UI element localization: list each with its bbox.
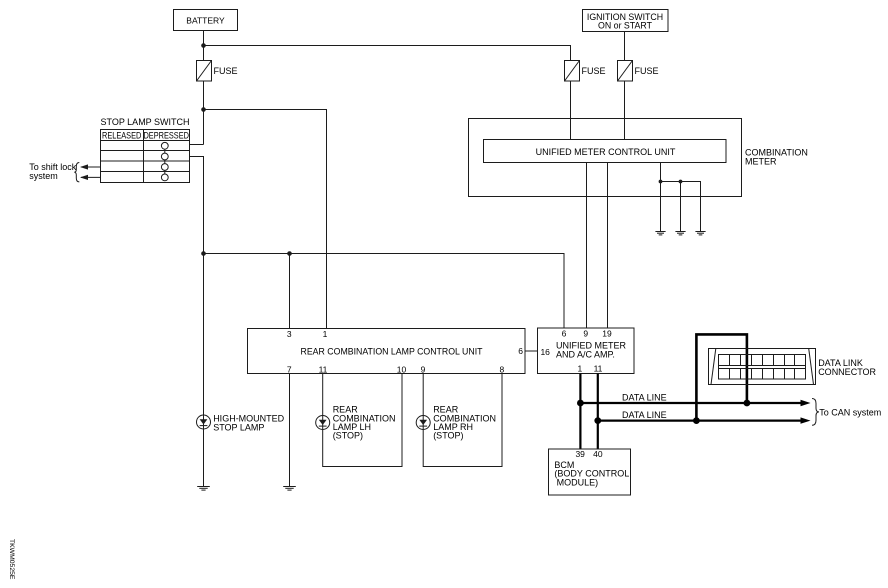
wire pin1 U3 to BCM pin39 bbox=[579, 374, 581, 450]
wire battery horizontal feed to ignition fuse bbox=[204, 46, 571, 61]
lamp LH circuit loop pins 11-10 bbox=[323, 374, 402, 467]
lamp RH circuit loop pins 9-8 bbox=[423, 374, 502, 467]
svg-text:CONNECTOR: CONNECTOR bbox=[818, 367, 876, 377]
BCM box bbox=[549, 449, 631, 495]
svg-text:10: 10 bbox=[397, 364, 407, 374]
svg-text:DEPRESSED: DEPRESSED bbox=[143, 131, 189, 141]
wire arrow to shift lock row 4 bbox=[81, 176, 101, 178]
svg-text:FUSE: FUSE bbox=[214, 66, 238, 76]
ground G3 bbox=[695, 232, 705, 235]
stop lamp switch contact chain bbox=[164, 146, 166, 178]
svg-text:UNIFIED METER CONTROL UNIT: UNIFIED METER CONTROL UNIT bbox=[536, 147, 676, 157]
svg-text:MODULE): MODULE) bbox=[557, 477, 599, 487]
wire stop lamp switch row 2 output bbox=[190, 157, 204, 254]
svg-text:DATA LINE: DATA LINE bbox=[622, 393, 667, 403]
node battery feed split bbox=[201, 43, 206, 48]
svg-text:9: 9 bbox=[583, 329, 588, 339]
wire fuse F3 to unified meter control unit bbox=[624, 81, 626, 140]
svg-text:To CAN system: To CAN system bbox=[819, 408, 881, 418]
ignition switch box bbox=[583, 10, 669, 32]
svg-text:BATTERY: BATTERY bbox=[186, 16, 225, 26]
svg-text:ON or START: ON or START bbox=[598, 20, 653, 30]
svg-text:STOP LAMP SWITCH: STOP LAMP SWITCH bbox=[101, 117, 190, 127]
lamp symbol high-mounted stop lamp DS1 bbox=[197, 415, 211, 429]
CAN thick wires bbox=[580, 334, 802, 449]
node data line 1 connector bbox=[744, 400, 751, 407]
svg-text:FUSE: FUSE bbox=[582, 66, 606, 76]
svg-text:19: 19 bbox=[602, 329, 612, 339]
svg-text:1: 1 bbox=[323, 329, 328, 339]
wire branch to pin 1 of rear combination lamp control unit bbox=[204, 110, 327, 329]
main stop lamp feed vertical bbox=[203, 254, 205, 487]
ground G1 bbox=[655, 232, 665, 235]
svg-text:7: 7 bbox=[287, 364, 292, 374]
ground G4 (high mounted stop lamp) bbox=[197, 487, 210, 491]
fuse F3 (ignition right) bbox=[618, 61, 633, 82]
unified meter and a/c amp box U3 bbox=[538, 328, 635, 374]
wire control unit to pin 19 bbox=[607, 163, 609, 329]
ground G2 bbox=[675, 232, 685, 235]
svg-text:6: 6 bbox=[562, 329, 567, 339]
svg-text:(STOP): (STOP) bbox=[333, 431, 363, 441]
svg-text:8: 8 bbox=[500, 364, 505, 374]
brace to CAN system bbox=[812, 399, 819, 426]
wire control unit to ground bus bbox=[660, 163, 662, 182]
ground drop 1 bbox=[660, 182, 662, 232]
fuse F2 (ignition left) bbox=[565, 61, 580, 82]
svg-text:FUSE: FUSE bbox=[635, 66, 659, 76]
ground drop 2 bbox=[680, 182, 682, 232]
wire control unit to pin 9 bbox=[586, 163, 588, 329]
svg-text:1: 1 bbox=[578, 363, 583, 373]
wire ignition to fuse F3 bbox=[624, 32, 626, 61]
ground bus in combination meter bbox=[661, 182, 701, 232]
svg-text:TKWM0525E: TKWM0525E bbox=[8, 539, 15, 580]
ground G5 (pin 7) bbox=[283, 487, 296, 491]
lamp symbol rear combination LH DS2 bbox=[316, 416, 330, 430]
battery box B1 bbox=[174, 10, 238, 31]
node ground bus 1 bbox=[659, 180, 663, 184]
svg-text:40: 40 bbox=[593, 449, 603, 459]
wire into stop lamp switch row 1 bbox=[190, 144, 204, 146]
svg-text:METER: METER bbox=[745, 157, 777, 167]
unified meter control unit box U1 bbox=[484, 140, 727, 163]
wire data line 2 bbox=[598, 420, 802, 422]
node data line 2 connector branch bbox=[693, 417, 700, 424]
svg-text:11: 11 bbox=[319, 364, 328, 374]
wire branch down to pin 3 bbox=[289, 254, 291, 329]
svg-text:6: 6 bbox=[518, 346, 523, 356]
arrowhead shift lock 4 bbox=[80, 175, 88, 180]
wire bus at y=253 to pin 6 of unified meter amp bbox=[204, 254, 565, 329]
data link connector J1 bbox=[709, 349, 816, 385]
arrowhead to CAN 2 bbox=[801, 417, 811, 423]
svg-text:11: 11 bbox=[594, 363, 603, 373]
svg-text:REAR COMBINATION LAMP CONTROL: REAR COMBINATION LAMP CONTROL UNIT bbox=[301, 347, 483, 357]
wire data line 1 bbox=[580, 402, 802, 404]
node ground bus 2 bbox=[679, 180, 683, 184]
brace shift lock bbox=[74, 163, 79, 182]
svg-text:39: 39 bbox=[575, 449, 585, 459]
wire pin 7 to ground bbox=[289, 374, 291, 487]
arrowhead to CAN 1 bbox=[801, 400, 811, 406]
svg-text:9: 9 bbox=[421, 364, 426, 374]
svg-text:system: system bbox=[29, 171, 58, 181]
lamp symbol rear combination RH DS3 bbox=[416, 416, 430, 430]
node stop lamp bus left bbox=[201, 251, 206, 256]
combination meter outer box bbox=[469, 119, 742, 197]
svg-text:(STOP): (STOP) bbox=[433, 431, 463, 441]
wire pin6 U2 to pin16 U3 bbox=[525, 350, 538, 352]
arrowhead shift lock 3 bbox=[80, 164, 88, 169]
node pin3 branch bbox=[287, 251, 292, 256]
svg-text:AND A/C AMP.: AND A/C AMP. bbox=[556, 350, 615, 360]
svg-text:RELEASED: RELEASED bbox=[102, 131, 141, 141]
fuse F1 (battery) bbox=[197, 61, 212, 82]
wire battery down to fuse bbox=[203, 31, 205, 61]
wire fuse F2 to unified meter control unit bbox=[570, 81, 572, 140]
rear combination lamp control unit box U2 bbox=[248, 329, 526, 374]
node pin1 branch bbox=[201, 107, 206, 112]
svg-text:STOP LAMP: STOP LAMP bbox=[213, 422, 264, 432]
wire pin11 U3 to BCM pin40 bbox=[597, 374, 599, 450]
svg-text:3: 3 bbox=[287, 329, 292, 339]
svg-text:DATA LINE: DATA LINE bbox=[622, 410, 667, 420]
svg-text:16: 16 bbox=[540, 347, 550, 357]
stop lamp switch table bbox=[101, 130, 190, 183]
node data line 1 pin1 bbox=[577, 400, 584, 407]
wire data link connector branch bbox=[696, 334, 747, 420]
wire arrow to shift lock row 3 bbox=[81, 166, 101, 168]
junction dots thin wires bbox=[80, 43, 682, 256]
wire fuse F1 down to stop lamp switch bbox=[203, 81, 205, 145]
node data line 2 pin11 bbox=[594, 417, 601, 424]
